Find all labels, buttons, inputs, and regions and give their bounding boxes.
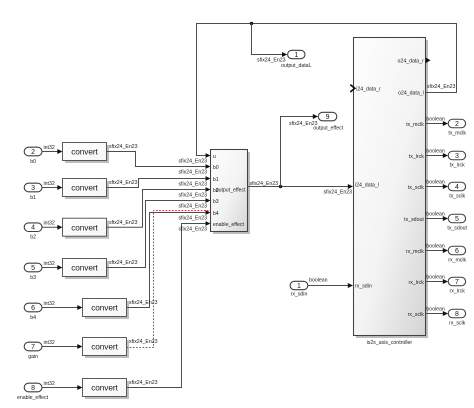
convert block (row b2) bbox=[63, 218, 110, 239]
svg-text:b4: b4 bbox=[30, 315, 36, 321]
svg-text:rx_mclk: rx_mclk bbox=[406, 249, 424, 255]
svg-text:b0: b0 bbox=[30, 159, 36, 165]
svg-text:rx_sclk: rx_sclk bbox=[408, 312, 425, 318]
svg-text:u: u bbox=[213, 154, 216, 160]
wire b2 inport to convert bbox=[42, 221, 63, 230]
output tx_sclk wire and outport 4 bbox=[408, 180, 466, 200]
svg-text:sfix24_En23: sfix24_En23 bbox=[109, 144, 138, 150]
wire enable_effect inport to convert bbox=[42, 381, 83, 390]
unconnected input port i24_data_r bbox=[350, 85, 381, 93]
subsystem block (effect filter) bbox=[211, 150, 251, 235]
svg-text:o24_data_l: o24_data_l bbox=[398, 91, 424, 97]
svg-text:b3: b3 bbox=[30, 275, 36, 281]
svg-text:int32: int32 bbox=[44, 221, 55, 227]
svg-text:convert: convert bbox=[71, 183, 98, 193]
svg-text:sfix24_En23: sfix24_En23 bbox=[109, 220, 138, 226]
wire b3 inport to convert bbox=[42, 261, 63, 270]
inport 6 (b4) bbox=[24, 303, 42, 321]
svg-text:b1: b1 bbox=[213, 177, 219, 183]
outport 1 (output_dataL) bbox=[281, 50, 311, 69]
input port rx_sdin label bbox=[355, 284, 372, 290]
svg-text:convert: convert bbox=[91, 303, 118, 313]
wire convert b4 to subsystem port bbox=[127, 210, 211, 307]
output rx_lrck wire and outport 7 bbox=[409, 275, 466, 295]
inport 4 (b2) bbox=[24, 223, 42, 241]
output tx_sdout wire and outport 5 bbox=[404, 212, 467, 232]
convert block (row b4) bbox=[83, 299, 130, 320]
wire branch to outport 1 bbox=[252, 24, 288, 64]
svg-text:rx_lrck: rx_lrck bbox=[409, 280, 425, 286]
svg-text:b3: b3 bbox=[213, 199, 219, 205]
svg-text:1: 1 bbox=[294, 52, 298, 59]
svg-text:is2s_axis_controller: is2s_axis_controller bbox=[367, 340, 413, 346]
junction node on output_effect wire bbox=[279, 185, 282, 188]
svg-text:boolean: boolean bbox=[426, 307, 445, 313]
unconnected output o24_data_r bbox=[398, 58, 431, 65]
svg-text:sfix24_En23: sfix24_En23 bbox=[178, 182, 207, 188]
inport 5 (b3) bbox=[24, 263, 42, 281]
wire o24_data_l feedback to u and outport 1 bbox=[197, 24, 457, 158]
svg-text:sfix24_En23: sfix24_En23 bbox=[178, 159, 207, 165]
wire convert enable_effect to subsystem port bbox=[127, 221, 211, 387]
svg-text:6: 6 bbox=[31, 305, 35, 312]
svg-text:6: 6 bbox=[455, 248, 459, 255]
output rx_sclk wire and outport 8 bbox=[408, 307, 466, 327]
wire convert b3 to subsystem port bbox=[107, 198, 211, 267]
svg-text:boolean: boolean bbox=[426, 180, 445, 186]
input port i24_data_l bbox=[355, 182, 379, 188]
output tx_mclk wire and outport 2 bbox=[406, 117, 466, 137]
svg-text:rx_sclk: rx_sclk bbox=[449, 320, 466, 326]
svg-text:5: 5 bbox=[31, 265, 35, 272]
svg-text:sfix24_En23: sfix24_En23 bbox=[427, 84, 456, 90]
wire convert b1 to subsystem port bbox=[107, 176, 211, 187]
svg-text:output_effect: output_effect bbox=[313, 126, 343, 132]
svg-text:gain: gain bbox=[28, 354, 38, 360]
svg-text:9: 9 bbox=[326, 114, 330, 121]
svg-text:b1: b1 bbox=[30, 195, 36, 201]
svg-text:b0: b0 bbox=[213, 165, 219, 171]
svg-text:boolean: boolean bbox=[426, 117, 445, 123]
inport 7 (gain) bbox=[24, 342, 42, 360]
svg-text:tx_mclk: tx_mclk bbox=[406, 122, 424, 128]
svg-text:rx_sdin: rx_sdin bbox=[291, 292, 308, 298]
svg-text:2: 2 bbox=[31, 149, 35, 156]
wire convert gain to subsystem port bbox=[127, 211, 209, 348]
inport 8 (enable_effect) bbox=[17, 383, 49, 401]
svg-text:sfix24_En23: sfix24_En23 bbox=[178, 193, 207, 199]
svg-text:sfix24_En23: sfix24_En23 bbox=[178, 227, 207, 233]
svg-text:tx_mclk: tx_mclk bbox=[448, 130, 466, 136]
svg-text:i24_data_r: i24_data_r bbox=[356, 87, 381, 93]
svg-text:sfix24_En23: sfix24_En23 bbox=[250, 181, 279, 187]
svg-text:sfix24_En23: sfix24_En23 bbox=[109, 260, 138, 266]
outport 9 (output_effect) bbox=[313, 112, 343, 131]
svg-text:convert: convert bbox=[71, 222, 98, 232]
svg-text:i24_data_l: i24_data_l bbox=[355, 182, 379, 188]
svg-text:sfix24_En23: sfix24_En23 bbox=[129, 380, 158, 386]
svg-text:enable_effect: enable_effect bbox=[213, 222, 245, 228]
svg-text:output_dataL: output_dataL bbox=[281, 63, 311, 69]
svg-text:o24_data_r: o24_data_r bbox=[398, 59, 425, 65]
svg-text:tx_sclk: tx_sclk bbox=[408, 185, 424, 191]
svg-text:int32: int32 bbox=[44, 381, 55, 387]
svg-text:sfix24_En23: sfix24_En23 bbox=[323, 190, 352, 196]
svg-text:int32: int32 bbox=[44, 181, 55, 187]
svg-text:boolean: boolean bbox=[426, 244, 445, 250]
svg-text:8: 8 bbox=[455, 311, 459, 318]
svg-text:b2: b2 bbox=[30, 235, 36, 241]
svg-text:7: 7 bbox=[455, 279, 459, 286]
wire b0 inport to convert bbox=[42, 145, 63, 154]
inport 1 (rx_sdin) bbox=[290, 281, 308, 297]
svg-text:int32: int32 bbox=[44, 261, 55, 267]
svg-text:2: 2 bbox=[455, 121, 459, 128]
svg-text:convert: convert bbox=[71, 263, 98, 273]
wire branch to outport 9 bbox=[281, 114, 319, 187]
svg-text:boolean: boolean bbox=[309, 278, 328, 284]
svg-text:4: 4 bbox=[31, 225, 35, 232]
svg-text:rx_mclk: rx_mclk bbox=[448, 257, 466, 263]
node labels sfix24_En23 at subsystem inputs bbox=[178, 159, 207, 233]
svg-text:7: 7 bbox=[31, 344, 35, 351]
wire b4 inport to convert bbox=[42, 301, 83, 310]
svg-text:3: 3 bbox=[31, 185, 35, 192]
svg-text:tx_lrck: tx_lrck bbox=[450, 162, 465, 168]
convert block (row b3) bbox=[63, 259, 110, 280]
wire convert b2 to subsystem port bbox=[107, 187, 211, 227]
svg-text:boolean: boolean bbox=[426, 149, 445, 155]
svg-text:tx_sclk: tx_sclk bbox=[449, 193, 465, 199]
svg-text:sfix24_En23: sfix24_En23 bbox=[178, 170, 207, 176]
output rx_mclk wire and outport 6 bbox=[406, 244, 467, 264]
svg-text:3: 3 bbox=[455, 153, 459, 160]
convert block (row b1) bbox=[63, 179, 110, 200]
convert block (row b0) bbox=[63, 143, 110, 164]
svg-text:rx_sdin: rx_sdin bbox=[355, 284, 372, 290]
convert block (row gain) bbox=[83, 338, 130, 359]
svg-text:convert: convert bbox=[91, 342, 118, 352]
wire gain inport to convert bbox=[42, 340, 83, 349]
svg-text:b4: b4 bbox=[213, 211, 219, 217]
subsystem port labels bbox=[213, 154, 246, 228]
svg-text:enable_effect: enable_effect bbox=[17, 395, 49, 401]
wire convert b0 to subsystem port bbox=[107, 144, 211, 169]
svg-text:boolean: boolean bbox=[426, 275, 445, 281]
junction node on feedback wire bbox=[250, 22, 253, 25]
wire b1 inport to convert bbox=[42, 181, 63, 190]
svg-text:1: 1 bbox=[297, 283, 301, 290]
inport 2 (b0) bbox=[24, 147, 42, 165]
svg-text:sfix24_En23: sfix24_En23 bbox=[109, 180, 138, 186]
output tx_lrck wire and outport 3 bbox=[409, 149, 466, 169]
svg-text:tx_sdout: tx_sdout bbox=[447, 225, 467, 231]
svg-text:rx_lrck: rx_lrck bbox=[450, 288, 466, 294]
is2s_axis_controller block bbox=[354, 38, 429, 346]
svg-text:tx_lrck: tx_lrck bbox=[409, 154, 424, 160]
convert block (row enable_effect) bbox=[83, 379, 130, 400]
svg-text:int32: int32 bbox=[44, 340, 55, 346]
svg-text:sfix24_En23: sfix24_En23 bbox=[129, 339, 158, 345]
svg-text:8: 8 bbox=[31, 385, 35, 392]
svg-text:5: 5 bbox=[455, 216, 459, 223]
svg-text:4: 4 bbox=[455, 184, 459, 191]
svg-text:convert: convert bbox=[91, 383, 118, 393]
wire output_effect to i24_data_l bbox=[248, 181, 354, 196]
svg-text:tx_sdout: tx_sdout bbox=[404, 217, 424, 223]
svg-text:boolean: boolean bbox=[426, 212, 445, 218]
svg-text:convert: convert bbox=[71, 147, 98, 157]
svg-text:int32: int32 bbox=[44, 145, 55, 151]
svg-text:int32: int32 bbox=[44, 301, 55, 307]
inport 3 (b1) bbox=[24, 183, 42, 201]
svg-text:output_effect: output_effect bbox=[216, 188, 246, 194]
svg-text:sfix24_En23: sfix24_En23 bbox=[178, 216, 207, 222]
wire rx_sdin to block bbox=[308, 278, 353, 288]
svg-text:sfix24_En23: sfix24_En23 bbox=[178, 204, 207, 210]
